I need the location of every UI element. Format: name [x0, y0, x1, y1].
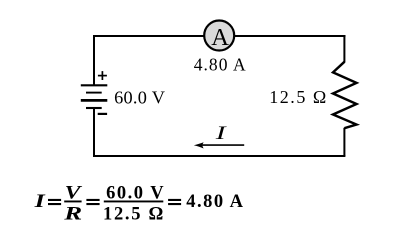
- ammeter A1: [204, 21, 234, 52]
- battery minus terminal: [98, 113, 107, 115]
- wire left lower segment: [93, 108, 95, 157]
- svg-text:12.5 Ω: 12.5 Ω: [269, 87, 328, 107]
- equation I = V/R = 60.0 V / 12.5 ohm = 4.80 A: [33, 182, 244, 225]
- current arrow: [194, 142, 244, 148]
- wire right upper segment: [343, 35, 345, 63]
- equation equals 3: [168, 199, 181, 201]
- svg-text:R: R: [63, 203, 82, 224]
- svg-text:4.80 A: 4.80 A: [186, 192, 244, 212]
- wire right lower segment: [343, 128, 345, 156]
- wire left upper segment: [93, 35, 95, 85]
- wire top: [93, 35, 346, 37]
- equation equals 1: [48, 199, 61, 201]
- svg-text:A: A: [211, 24, 229, 51]
- svg-text:4.80 A: 4.80 A: [194, 55, 247, 75]
- svg-text:60.0 V: 60.0 V: [114, 87, 165, 107]
- svg-text:V: V: [65, 182, 83, 203]
- svg-text:60.0 V: 60.0 V: [106, 183, 165, 203]
- battery: [81, 85, 108, 108]
- wire bottom: [93, 155, 345, 157]
- equation equals 2: [86, 199, 99, 201]
- resistor R1: [333, 62, 357, 128]
- svg-text:I: I: [215, 123, 228, 144]
- svg-text:I: I: [33, 191, 46, 212]
- svg-text:12.5 Ω: 12.5 Ω: [103, 204, 165, 224]
- battery plus terminal: [98, 71, 107, 80]
